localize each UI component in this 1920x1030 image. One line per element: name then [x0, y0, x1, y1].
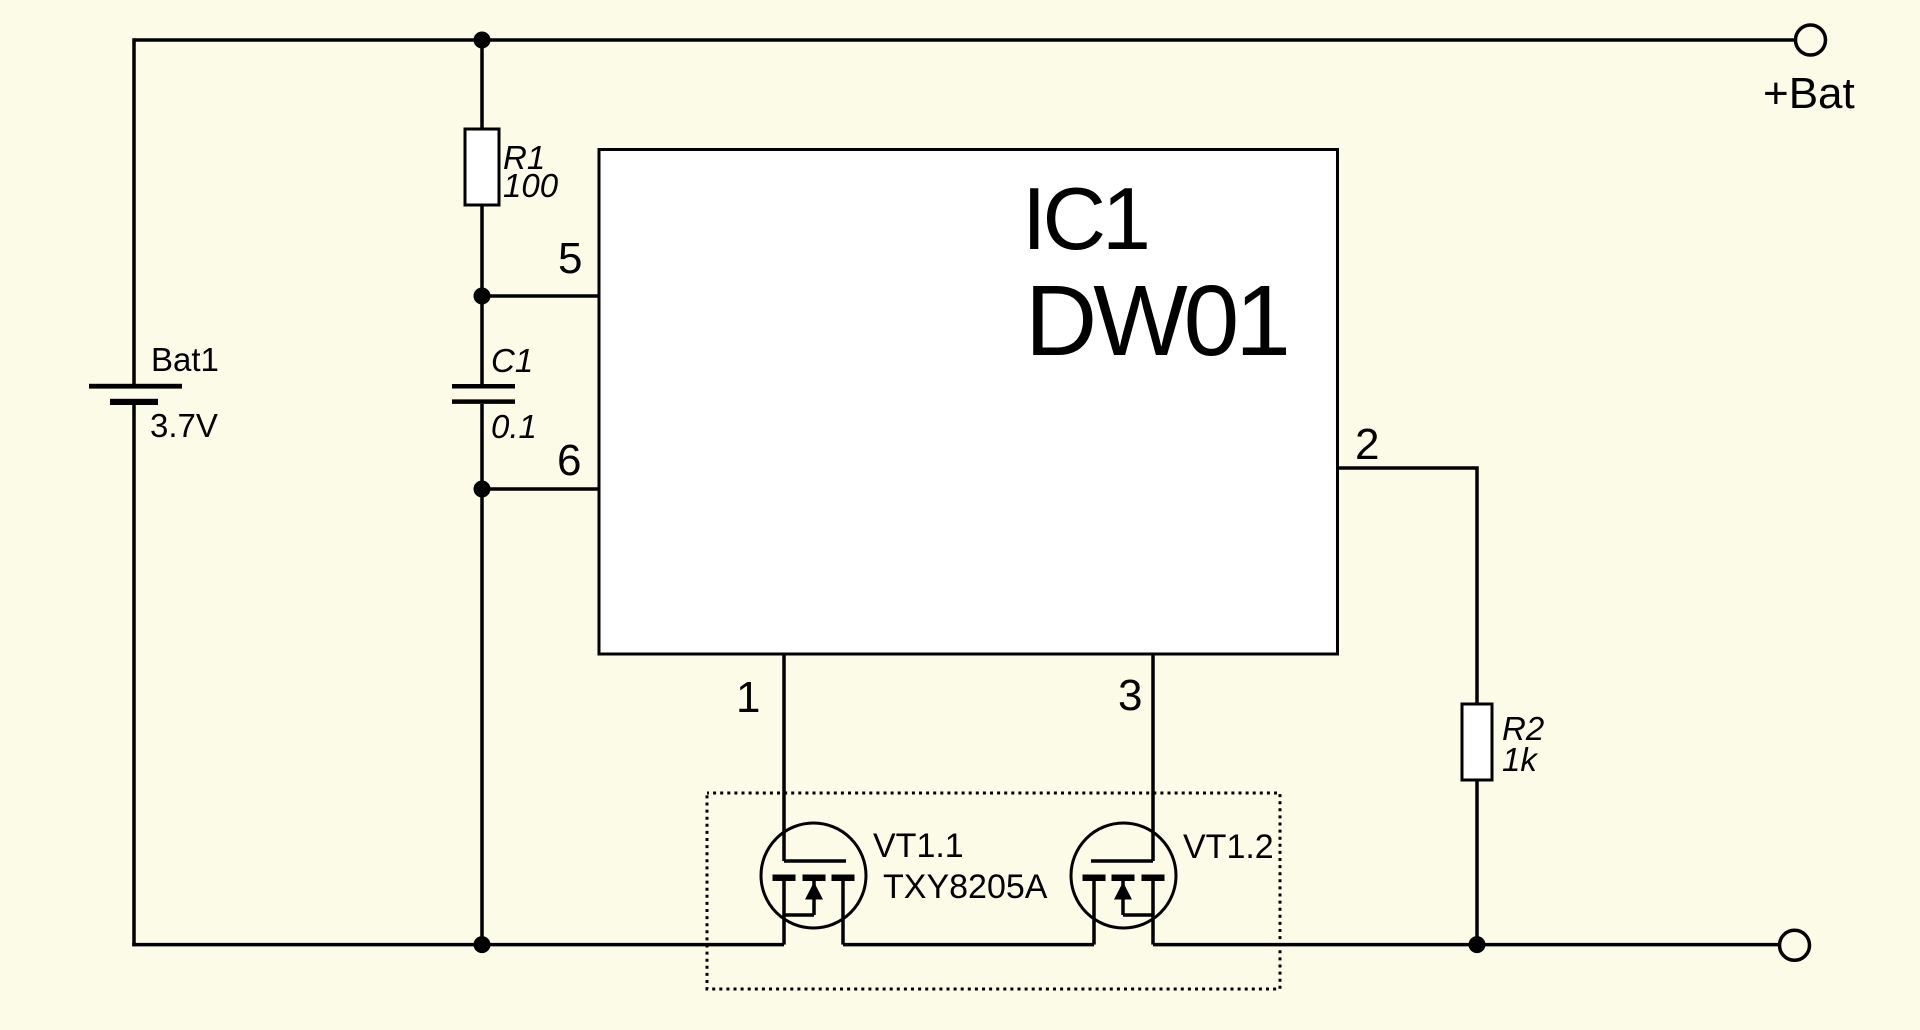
resistor R1: [465, 129, 499, 205]
battery Bat1: [89, 384, 182, 405]
wire bottom rail segment C: [1153, 943, 1778, 947]
wire pin 3 (gate VT1.2): [1151, 655, 1155, 861]
node junction pin6: [474, 481, 491, 498]
transistor VT1.2 (right half TXY8205A, mirrored): [1071, 823, 1176, 945]
svg-text:VT1.1: VT1.1: [873, 827, 964, 865]
wire bottom rail segment A: [132, 943, 784, 947]
svg-text:VT1.2: VT1.2: [1183, 828, 1274, 866]
svg-text:3.7V: 3.7V: [150, 407, 218, 444]
wire top rail: [134, 38, 1794, 42]
wire R1 branch upper: [480, 40, 484, 129]
wire left battery bottom: [132, 405, 136, 946]
wire pin 5: [482, 294, 599, 298]
wire pin 1 (gate VT1.1): [782, 655, 786, 861]
wire bottom rail segment B: [843, 943, 1094, 947]
wire R2 to bottom rail: [1475, 780, 1479, 945]
node junction top (R1 tap): [474, 32, 491, 49]
transistor VT1.1 (left half TXY8205A): [761, 823, 866, 945]
wire pin5 node to C1: [480, 296, 484, 384]
node junction bottom left: [474, 936, 491, 953]
node junction bottom right: [1469, 936, 1486, 953]
svg-text:IC1: IC1: [1022, 169, 1147, 268]
dual-mosfet dotted outline box: [707, 793, 1280, 989]
resistor R2: [1462, 704, 1492, 780]
svg-text:6: 6: [557, 436, 581, 485]
svg-text:1: 1: [736, 673, 760, 722]
svg-text:2: 2: [1355, 420, 1379, 469]
svg-text:TXY8205A: TXY8205A: [883, 868, 1048, 906]
terminal bottom right: [1780, 930, 1810, 960]
capacitor C1: [452, 386, 515, 401]
terminal +Bat: [1796, 25, 1826, 55]
wire pin 6: [482, 487, 599, 491]
wire pin 2: [1338, 468, 1477, 704]
svg-text:100: 100: [503, 167, 559, 204]
svg-text:DW01: DW01: [1025, 265, 1287, 377]
svg-text:5: 5: [558, 234, 582, 283]
svg-text:+Bat: +Bat: [1763, 69, 1855, 118]
svg-text:3: 3: [1118, 671, 1142, 720]
svg-text:Bat1: Bat1: [151, 341, 219, 378]
svg-text:C1: C1: [491, 342, 533, 379]
node junction pin5: [474, 288, 491, 305]
op IC1 DW01 box: [599, 150, 1338, 655]
wire left battery top: [132, 38, 136, 384]
wire R1 to pin5 node: [480, 205, 484, 296]
svg-text:1k: 1k: [1502, 741, 1538, 778]
wire pin6 node to bottom rail: [480, 489, 484, 945]
svg-text:0.1: 0.1: [491, 408, 537, 445]
wire C1 to pin6 node: [480, 404, 484, 489]
